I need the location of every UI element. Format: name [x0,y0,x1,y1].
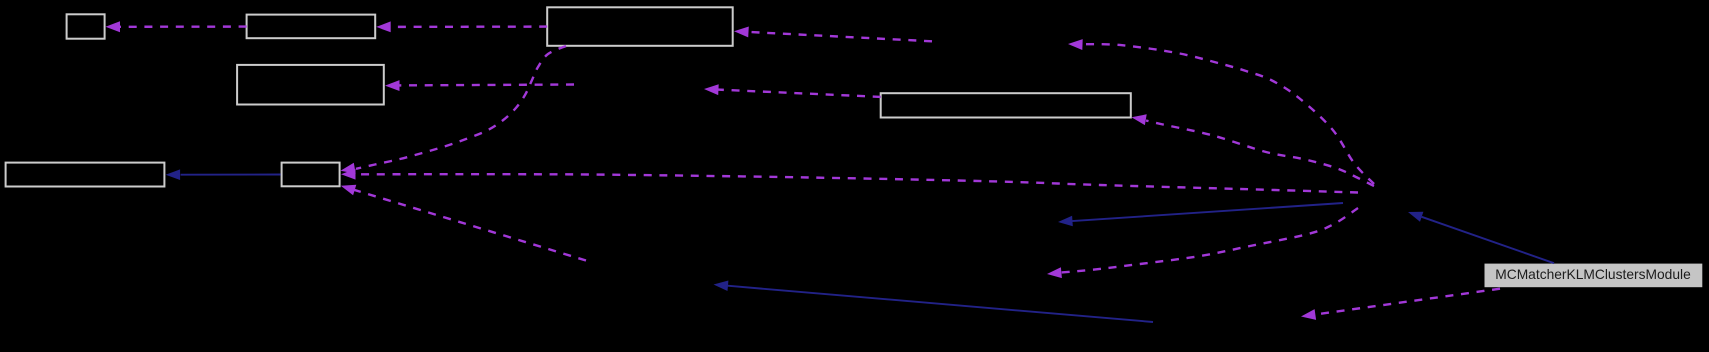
main node MCMatcherKLMClustersModule (gray filled) [1485,264,1703,288]
dashed usage edge E9: B6 curve down to B5 [356,46,566,169]
solid inheritance arrow A3: main node to hidden hub [1422,217,1554,263]
dashed usage edge E6: hidden node to B3 [399,83,574,86]
dashed usage edge E4: hidden hub arc to hidden node (top right arc) [1082,44,1374,184]
dashed usage edge E8: hidden hub to B5 (long) [357,174,1358,192]
class node box B6 (top-center two-line) [547,7,733,46]
solid inheritance arrow A1: B5 to B4 [181,174,281,176]
dashed usage edge E1: B2 to B1 [119,25,247,28]
dashed usage edge E10: hidden node to B5 bottom [354,190,586,261]
class node box B4 (bottom-left wide) [6,163,165,187]
svg-text:MCMatcherKLMClustersModule: MCMatcherKLMClustersModule [1495,267,1691,282]
class node box B7 (center-right wide) [881,93,1131,117]
solid inheritance arrow A4: hidden node to hidden node (bottom long) [727,286,1153,322]
dashed usage edge E12: main node to hidden node (bottom left of main) [1315,289,1500,315]
dashed usage edge E11: hidden hub to hidden node (bottom) [1061,208,1358,273]
dashed usage edge E3: hidden node to B6 [748,32,932,41]
class node box B5 (small center-left) [282,163,340,187]
class node box B1 (top-left small) [67,14,105,38]
class node box B2 (top row) [247,15,376,39]
solid inheritance arrow A2: hidden hub to hidden node (middle) [1072,203,1343,221]
dashed usage edge E7: hidden hub to B7 [1146,121,1374,187]
dashed usage edge E2: B6 to B2 [389,25,547,28]
dashed usage edge E5: B7 to hidden node [718,90,881,97]
class node box B3 (two-line) [237,65,384,105]
